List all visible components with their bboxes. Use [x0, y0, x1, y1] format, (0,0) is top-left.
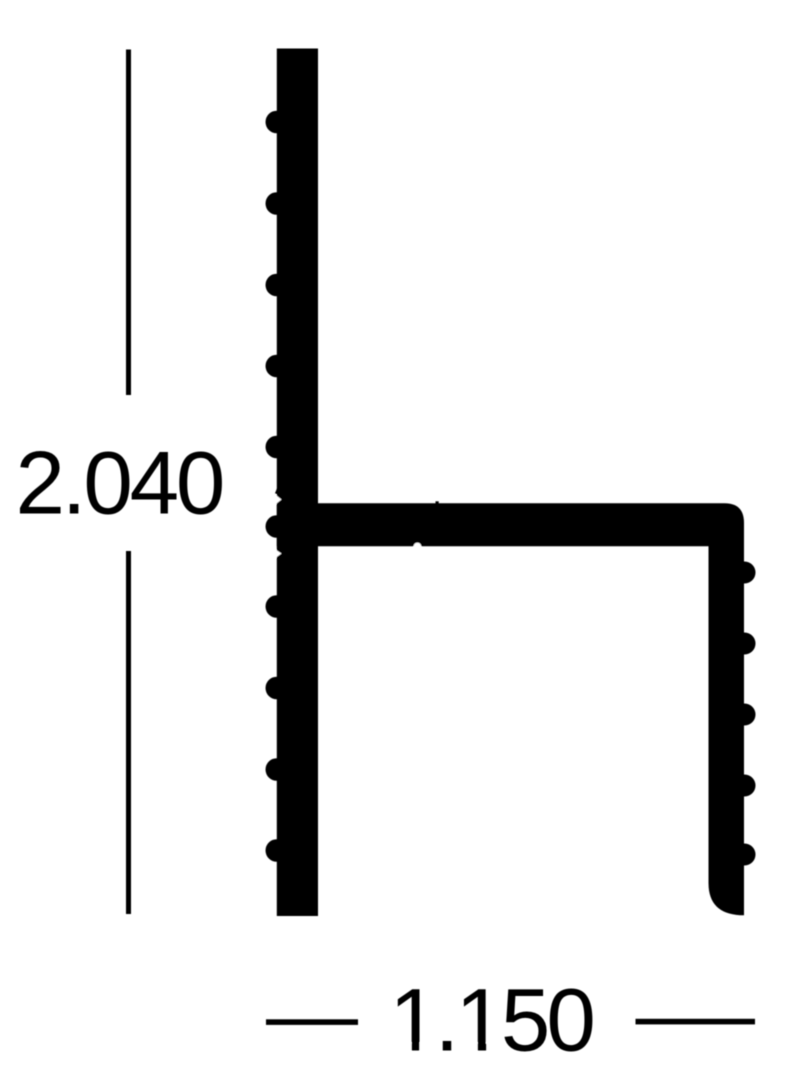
svg-text:2.040: 2.040: [16, 433, 223, 533]
svg-text:1.150: 1.150: [389, 970, 593, 1070]
